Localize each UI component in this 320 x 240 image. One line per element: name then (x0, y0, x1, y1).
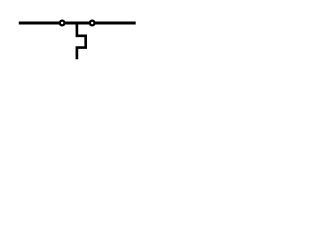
wire: horizontal conductor (19, 22, 136, 25)
terminal circle (left) (60, 21, 65, 26)
terminal circle (right) (90, 21, 95, 26)
thermal element: conductor drop with square-wave jog (77, 23, 86, 59)
